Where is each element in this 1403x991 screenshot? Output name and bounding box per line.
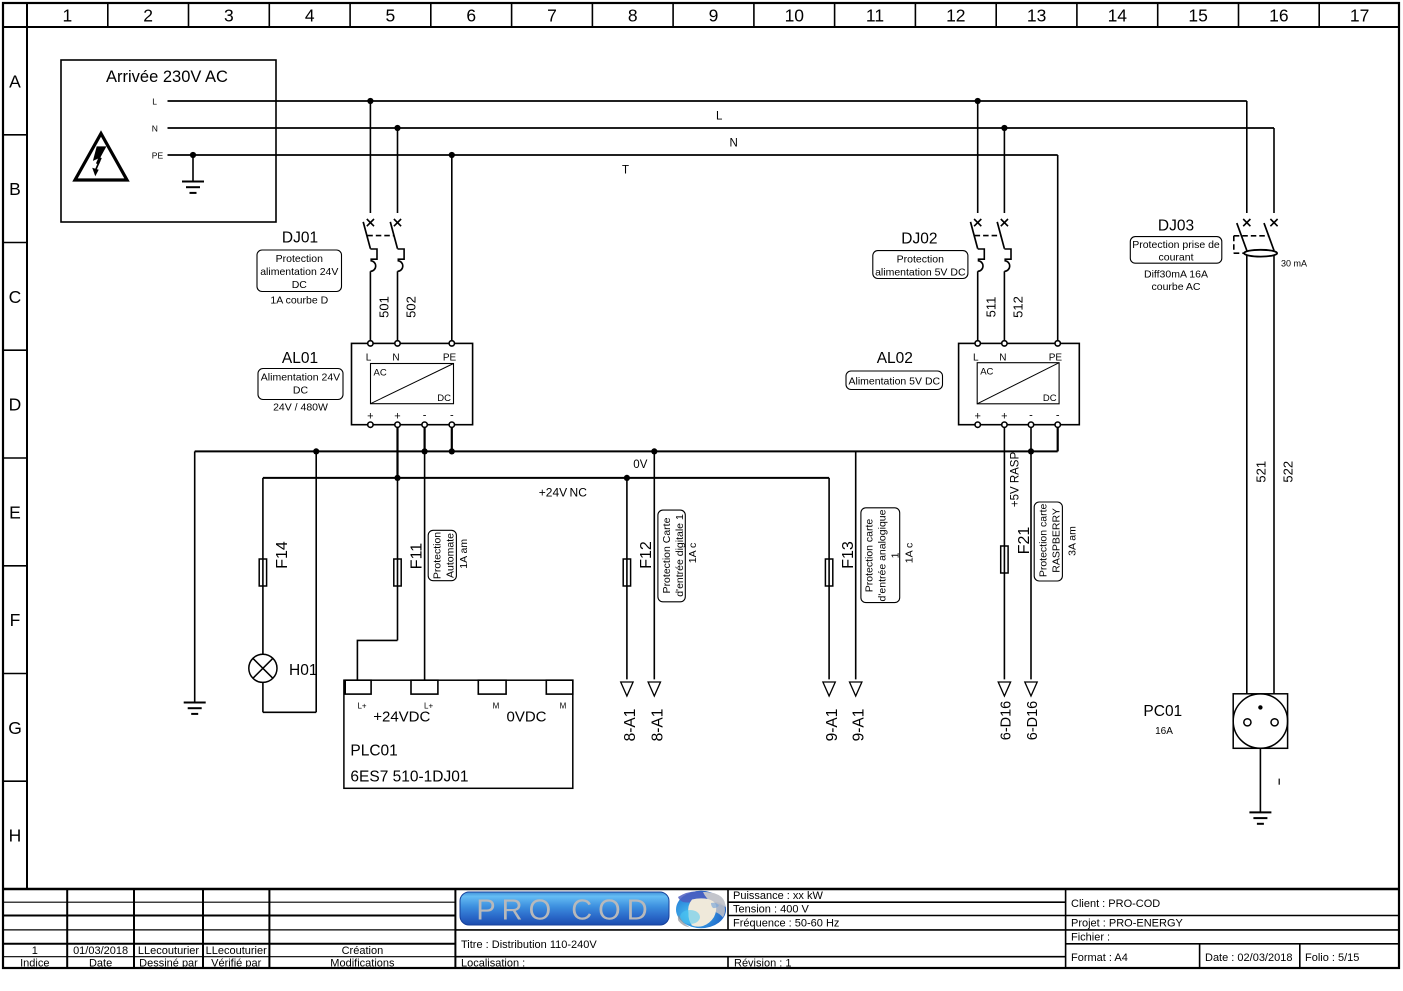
svg-text:01/03/2018: 01/03/2018 (73, 945, 128, 957)
svg-text:DC: DC (292, 279, 308, 291)
svg-text:24V / 480W: 24V / 480W (273, 402, 328, 414)
svg-text:Révision : 1: Révision : 1 (734, 958, 791, 970)
svg-text:L: L (716, 111, 723, 123)
svg-text:Protection prise de: Protection prise de (1132, 239, 1220, 251)
svg-text:4: 4 (305, 6, 315, 26)
svg-text:AC: AC (374, 368, 387, 379)
svg-text:Indice: Indice (20, 958, 49, 970)
svg-text:B: B (9, 179, 21, 199)
svg-text:2: 2 (143, 6, 153, 26)
svg-text:30 mA: 30 mA (1281, 259, 1307, 269)
svg-text:1: 1 (32, 945, 38, 957)
svg-text:3: 3 (224, 6, 234, 26)
svg-text:Date: Date (89, 958, 112, 970)
svg-text:LLecouturier: LLecouturier (138, 945, 199, 957)
svg-text:M: M (493, 702, 500, 711)
svg-text:DJ03: DJ03 (1158, 218, 1194, 235)
svg-text:Protection: Protection (897, 254, 944, 266)
svg-text:8: 8 (628, 6, 638, 26)
svg-text:courbe AC: courbe AC (1151, 281, 1200, 293)
svg-text:PC01: PC01 (1143, 703, 1182, 720)
svg-text:d'entrée digitale 1: d'entrée digitale 1 (674, 514, 686, 597)
svg-text:9-A1: 9-A1 (851, 709, 868, 742)
svg-text:512: 512 (1010, 296, 1025, 318)
svg-text:PE: PE (152, 150, 164, 160)
svg-text:D: D (9, 395, 22, 415)
svg-text:PRO COD: PRO COD (476, 895, 653, 927)
svg-text:AC: AC (980, 367, 993, 378)
svg-text:courant: courant (1158, 252, 1193, 264)
svg-text:14: 14 (1108, 6, 1128, 26)
svg-text:F14: F14 (274, 541, 291, 569)
svg-text:LLecouturier: LLecouturier (206, 945, 267, 957)
svg-text:F: F (10, 610, 21, 630)
svg-text:Alimentation 24V: Alimentation 24V (261, 372, 340, 384)
svg-text:N: N (392, 353, 399, 364)
svg-text:alimentation 24V: alimentation 24V (260, 266, 338, 278)
svg-text:Projet : PRO-ENERGY: Projet : PRO-ENERGY (1071, 918, 1184, 930)
svg-text:Client : PRO-COD: Client : PRO-COD (1071, 898, 1160, 910)
svg-text:L+: L+ (357, 702, 366, 711)
svg-text:Puissance : xx kW: Puissance : xx kW (733, 890, 823, 902)
svg-text:DJ02: DJ02 (901, 231, 937, 248)
svg-text:RASPBERRY: RASPBERRY (1050, 508, 1062, 573)
svg-text:Format : A4: Format : A4 (1071, 952, 1128, 964)
svg-text:1A c: 1A c (687, 543, 699, 563)
svg-text:16A: 16A (1155, 726, 1173, 737)
svg-text:3A am: 3A am (1067, 526, 1079, 556)
svg-text:17: 17 (1350, 6, 1369, 26)
svg-text:alimentation 5V DC: alimentation 5V DC (875, 267, 966, 279)
svg-text:+: + (367, 411, 373, 423)
svg-text:+24V NC: +24V NC (539, 485, 587, 499)
svg-text:DJ01: DJ01 (282, 230, 318, 247)
svg-text:F11: F11 (409, 543, 426, 569)
svg-text:Protection carte: Protection carte (863, 519, 875, 593)
svg-text:Vérifié par: Vérifié par (211, 958, 261, 970)
svg-text:1: 1 (889, 552, 901, 558)
svg-text:+5V RASP: +5V RASP (1010, 452, 1022, 508)
svg-text:M: M (560, 702, 567, 711)
svg-text:d'entrée analogique: d'entrée analogique (876, 509, 888, 601)
svg-text:Tension : 400 V: Tension : 400 V (733, 904, 809, 916)
svg-text:Titre : Distribution 110-240V: Titre : Distribution 110-240V (461, 939, 597, 951)
svg-text:+24VDC: +24VDC (373, 709, 430, 726)
svg-text:501: 501 (376, 296, 391, 318)
svg-text:Localisation :: Localisation : (461, 958, 525, 970)
svg-text:Création: Création (342, 945, 384, 957)
svg-text:1A courbe D: 1A courbe D (270, 295, 328, 307)
svg-text:-: - (1056, 410, 1060, 422)
svg-text:+: + (394, 411, 400, 423)
svg-text:1A am: 1A am (458, 539, 470, 569)
svg-text:502: 502 (404, 296, 419, 318)
svg-text:7: 7 (547, 6, 557, 26)
svg-text:PLC01: PLC01 (350, 743, 397, 760)
svg-text:8-A1: 8-A1 (649, 709, 666, 742)
svg-text:H01: H01 (289, 662, 317, 679)
svg-text:6ES7 510-1DJ01: 6ES7 510-1DJ01 (350, 769, 468, 786)
svg-text:Fichier :: Fichier : (1071, 932, 1110, 944)
svg-text:6: 6 (466, 6, 476, 26)
svg-text:DC: DC (1043, 393, 1057, 404)
svg-text:G: G (8, 718, 22, 738)
svg-text:-: - (1029, 410, 1033, 422)
svg-text:N: N (152, 123, 158, 133)
svg-text:L: L (366, 353, 372, 364)
svg-text:Protection carte: Protection carte (1037, 503, 1049, 577)
svg-text:DC: DC (293, 385, 309, 397)
svg-text:Folio : 5/15: Folio : 5/15 (1305, 952, 1359, 964)
svg-text:PE: PE (443, 353, 457, 364)
svg-text:5: 5 (386, 6, 396, 26)
svg-text:F13: F13 (840, 541, 857, 569)
svg-text:L: L (973, 353, 979, 364)
svg-text:PE: PE (1049, 353, 1063, 364)
svg-text:10: 10 (785, 6, 805, 26)
svg-text:12: 12 (946, 6, 965, 26)
svg-text:Arrivée 230V AC: Arrivée 230V AC (106, 68, 228, 86)
svg-text:+: + (1001, 411, 1007, 423)
svg-text:F12: F12 (638, 541, 655, 569)
svg-text:0VDC: 0VDC (506, 709, 546, 726)
svg-text:6-D16: 6-D16 (998, 701, 1014, 741)
svg-text:N: N (999, 353, 1006, 364)
svg-text:AL01: AL01 (282, 350, 318, 367)
svg-text:522: 522 (1280, 461, 1295, 483)
svg-text:13: 13 (1027, 6, 1046, 26)
svg-text:9-A1: 9-A1 (824, 709, 841, 742)
svg-text:Date : 02/03/2018: Date : 02/03/2018 (1205, 952, 1292, 964)
svg-text:Protection: Protection (432, 532, 444, 579)
svg-text:+: + (974, 411, 980, 423)
svg-text:T: T (622, 165, 629, 177)
svg-text:E: E (9, 502, 21, 522)
svg-text:-: - (423, 410, 427, 422)
svg-text:511: 511 (984, 297, 999, 318)
svg-text:Protection Carte: Protection Carte (661, 517, 673, 593)
svg-text:Alimentation 5V DC: Alimentation 5V DC (848, 376, 940, 388)
svg-text:15: 15 (1188, 6, 1207, 26)
svg-text:11: 11 (866, 6, 884, 26)
svg-text:521: 521 (1253, 461, 1268, 483)
svg-text:Automate: Automate (445, 533, 457, 578)
svg-text:F21: F21 (1016, 527, 1033, 555)
svg-text:0V: 0V (633, 459, 647, 471)
svg-text:9: 9 (709, 6, 719, 26)
svg-text:DC: DC (437, 393, 451, 404)
svg-text:A: A (9, 71, 21, 91)
svg-text:16: 16 (1269, 6, 1288, 26)
svg-text:Fréquence : 50-60 Hz: Fréquence : 50-60 Hz (733, 918, 839, 930)
svg-text:6-D16: 6-D16 (1025, 701, 1041, 741)
svg-text:1: 1 (63, 6, 73, 26)
svg-text:-: - (450, 410, 454, 422)
svg-text:8-A1: 8-A1 (622, 709, 639, 742)
svg-text:Protection: Protection (276, 253, 323, 265)
svg-text:AL02: AL02 (877, 350, 913, 367)
svg-text:N: N (730, 138, 738, 150)
svg-text:Diff30mA 16A: Diff30mA 16A (1144, 269, 1208, 281)
svg-text:C: C (9, 287, 22, 307)
svg-text:Modifications: Modifications (330, 958, 395, 970)
svg-text:Dessiné par: Dessiné par (139, 958, 198, 970)
svg-text:H: H (9, 826, 22, 846)
svg-text:1A c: 1A c (903, 543, 915, 563)
svg-text:L: L (152, 96, 157, 106)
